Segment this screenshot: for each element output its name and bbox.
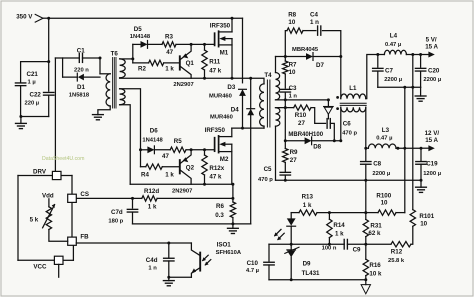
junction C19 tap [420, 147, 423, 150]
svg-text:MBR40H100: MBR40H100 [288, 132, 323, 138]
svg-text:C1: C1 [77, 47, 85, 54]
transistor Q1 collector [181, 67, 192, 79]
svg-text:R3: R3 [165, 34, 173, 41]
wire T6 primary bottom to ground [98, 106, 110, 115]
svg-text:D5: D5 [134, 26, 142, 33]
svg-text:2N2907: 2N2907 [173, 82, 193, 88]
wire C20 ground stem [420, 87, 422, 96]
junction Q2 emitter node [190, 148, 193, 151]
resistor R10 [294, 105, 311, 110]
wire gate row M2 [186, 149, 215, 151]
transistor Q1 emitter [181, 44, 192, 59]
capacitor C7d [132, 198, 134, 208]
junction M2 source row at col [231, 183, 234, 186]
wire R10 to C6 [311, 108, 326, 124]
controller box outline [18, 175, 52, 177]
svg-text:CS: CS [80, 191, 89, 198]
svg-text:FB: FB [80, 233, 89, 240]
junction C4d bottom [167, 276, 170, 279]
wire R12 row [366, 243, 391, 245]
svg-text:Q1: Q1 [186, 60, 195, 67]
wire 5V arrow lead [421, 54, 429, 56]
wire R13 row [291, 212, 299, 214]
wire D7 row [276, 56, 307, 58]
junction C8 bottom [364, 179, 367, 182]
svg-text:R16: R16 [369, 262, 381, 269]
svg-text:10: 10 [420, 220, 427, 227]
svg-text:470 p: 470 p [342, 131, 357, 137]
wire R8 snubber branch [285, 31, 287, 57]
wire sense column 5V [412, 55, 414, 210]
junction TL431 cathode [290, 243, 293, 246]
junction divider node [364, 243, 367, 246]
wire M1 drain column [231, 18, 233, 32]
ground primary power [228, 227, 239, 229]
wire C1 box top edge [55, 57, 79, 59]
svg-text:D9: D9 [303, 260, 311, 267]
transformer T4 secondary lower [276, 108, 280, 127]
transistor Q2 base bar [179, 160, 181, 173]
svg-text:C5: C5 [264, 166, 272, 173]
junction C3 bottom on tap row [284, 98, 287, 101]
mosfet M1 arrow [219, 36, 225, 41]
resistor R3 [162, 42, 176, 47]
inductor L3 [366, 147, 369, 149]
wire center tap row [276, 99, 329, 101]
svg-text:M2: M2 [220, 156, 229, 163]
svg-text:1 k: 1 k [303, 202, 312, 209]
freewheel diode 5V (open) [324, 106, 334, 108]
junction R16 bottom [364, 278, 367, 281]
wire M2 source column [231, 144, 233, 184]
svg-text:D8: D8 [313, 143, 321, 150]
svg-text:62 k: 62 k [368, 230, 381, 237]
svg-text:MUR460: MUR460 [209, 94, 232, 100]
wire gate row M1 [176, 43, 215, 45]
capacitor C7 [377, 55, 379, 68]
junction L3 out [396, 147, 399, 150]
junction TL431 anode [290, 278, 293, 281]
350V input chevron connector [35, 14, 43, 22]
svg-text:R4: R4 [141, 171, 149, 178]
junction R6 bottom [231, 222, 234, 225]
wire C21 bottom [20, 86, 22, 117]
junction R12x bottom node [203, 183, 206, 186]
svg-text:Vdd: Vdd [42, 192, 54, 199]
wire C21 branch top [21, 62, 49, 82]
capacitor C9 [343, 239, 345, 249]
svg-text:1N5818: 1N5818 [69, 93, 90, 99]
svg-text:ISO1: ISO1 [217, 242, 232, 249]
wire T6 upper secondary top lead [120, 58, 133, 60]
wire L1 bottom right to 12V row [365, 107, 367, 148]
wire common column [404, 87, 406, 212]
mosfet M1 channel bar [218, 31, 220, 46]
inductor L1 top winding [341, 94, 366, 99]
wire T4 lower secondary bottom lead [275, 126, 277, 180]
svg-text:350 V: 350 V [16, 13, 33, 20]
junction Q1 emitter node [190, 43, 193, 46]
svg-text:R2: R2 [138, 66, 146, 73]
wire T6 lower secondary top lead [120, 89, 141, 150]
svg-text:R10: R10 [295, 112, 307, 119]
mosfet M2 drain stub [219, 136, 232, 138]
svg-text:2200 µ: 2200 µ [423, 77, 441, 83]
wire D7 cathode to L1 [340, 57, 342, 99]
junction C21 branch [47, 60, 50, 63]
svg-text:M1: M1 [220, 50, 229, 57]
transformer T6 secondary upper winding [120, 59, 126, 78]
junction R10 row tap [284, 106, 287, 109]
wire secondary top lead [275, 57, 277, 73]
junction L3 in [364, 147, 367, 150]
wire source row to T4 [232, 78, 264, 84]
wire D5 row left [133, 43, 141, 45]
wire VCC stub [58, 264, 60, 277]
svg-text:IRF350: IRF350 [205, 127, 226, 134]
svg-text:1 k: 1 k [148, 204, 157, 211]
svg-text:R14: R14 [333, 222, 345, 229]
wire C1 box left edge [62, 58, 64, 77]
transistor Q2 emitter [181, 150, 192, 163]
wire R9 column mid [284, 108, 286, 149]
wire source to sense node [232, 184, 234, 198]
wire R2 to Q1 base [164, 62, 180, 64]
svg-text:D3: D3 [227, 84, 235, 91]
svg-text:C19: C19 [426, 161, 438, 168]
junction C7 tap [376, 53, 379, 56]
svg-text:27: 27 [298, 120, 305, 127]
junction R14 top [328, 211, 331, 214]
svg-text:1 k: 1 k [165, 171, 174, 178]
inductor L1 bottom winding [341, 107, 366, 112]
svg-text:C9: C9 [353, 246, 361, 253]
diode D7 [306, 53, 313, 60]
svg-text:100 n: 100 n [322, 246, 337, 252]
wire R100 right lead [396, 212, 405, 214]
diode D8 [305, 137, 312, 144]
mosfet M2 arrow [219, 142, 225, 147]
resistor R11 [204, 44, 206, 50]
svg-text:2N2907: 2N2907 [172, 188, 192, 194]
transformer T4 primary winding [260, 84, 264, 126]
svg-text:0.3: 0.3 [215, 212, 224, 219]
wire L1 bottom left to D8 [340, 107, 342, 141]
wire D3 column lower [242, 96, 244, 128]
svg-text:R31: R31 [370, 222, 382, 229]
svg-text:C4: C4 [310, 12, 318, 19]
wire R31 column top [365, 180, 367, 219]
ground 12V common [416, 186, 427, 188]
wire bottom rail [133, 223, 251, 225]
wire secondary common row [276, 179, 422, 181]
wire 12V row [396, 147, 421, 149]
mosfet M2 source stub [219, 151, 232, 153]
phase dot L1 bottom [336, 107, 339, 110]
svg-text:10: 10 [381, 200, 388, 207]
wire opto emitter row [169, 276, 192, 278]
capacitor C10 [268, 244, 270, 261]
wire CS row [76, 197, 142, 199]
LED light arrows [275, 229, 281, 235]
svg-text:DataSheet4U.com: DataSheet4U.com [42, 156, 84, 162]
wire D6 riser to R4 row [140, 150, 142, 167]
wire C19 ground stem [420, 180, 422, 187]
arrow 12V output [428, 145, 434, 151]
junction L4 out [411, 53, 414, 56]
wire secondary bottom row [269, 279, 366, 281]
resistor R12x [204, 150, 206, 155]
svg-text:15 A: 15 A [425, 44, 438, 51]
pin FB [68, 237, 77, 245]
wire M1 source row [120, 77, 232, 79]
junction D7 cathode node [339, 55, 342, 58]
shunt regulator D9 TL431 [290, 244, 292, 250]
svg-text:C6: C6 [343, 121, 351, 128]
mosfet M2 channel bar [218, 136, 220, 153]
junction 350V node [47, 17, 50, 20]
transformer T4 secondary upper [276, 73, 280, 100]
ground T6 primary [93, 114, 104, 116]
svg-text:R7: R7 [289, 62, 297, 69]
svg-text:5 V/: 5 V/ [426, 36, 437, 43]
junction snubber tap D7 anode [284, 55, 287, 58]
wire D8 row [285, 140, 304, 142]
wire D3 column upper [242, 18, 244, 83]
junction R14 bottom [328, 243, 331, 246]
junction D6 node [139, 148, 142, 151]
svg-text:MUR460: MUR460 [210, 114, 233, 120]
optocoupler ISO1 LED [290, 213, 292, 219]
junction sense col at common [411, 86, 414, 89]
resistor R2 [149, 60, 164, 65]
wire C1 box right edge [99, 58, 101, 74]
junction D8 cathode node [339, 139, 342, 142]
svg-text:4.7 µ: 4.7 µ [246, 268, 259, 274]
potentiometer 5k [48, 199, 50, 207]
svg-text:R101: R101 [419, 213, 434, 220]
svg-text:10 k: 10 k [369, 270, 382, 277]
capacitor C3 [284, 74, 286, 88]
wire R100 left lead [366, 212, 378, 214]
wire C21-C22 bottom tie [21, 116, 49, 118]
transformer T6 primary winding [106, 74, 110, 106]
wire M2 source row [130, 183, 233, 185]
svg-text:10: 10 [289, 69, 296, 76]
wire R13 to R14 to R31node [317, 212, 366, 214]
wire DRV column [54, 58, 56, 171]
transistor Q1 base bar [179, 56, 181, 69]
junction R12x top node [203, 148, 206, 151]
svg-text:D7: D7 [316, 62, 324, 69]
svg-text:R11: R11 [209, 59, 221, 66]
diode D4 [247, 109, 254, 116]
svg-text:C8: C8 [373, 161, 381, 168]
resistor R4 [146, 164, 163, 169]
svg-text:R13: R13 [302, 194, 314, 201]
capacitor C4 snubber [317, 26, 319, 35]
svg-text:5 k: 5 k [30, 217, 39, 224]
junction D8 anode node [284, 139, 287, 142]
junction R11 top node [203, 43, 206, 46]
junction C1 box top right [99, 57, 102, 60]
svg-text:47 k: 47 k [209, 174, 222, 181]
resistor R13 [299, 210, 317, 215]
resistor R31 [363, 219, 368, 236]
wire top 350V rail [49, 17, 243, 19]
mosfet M2 gate bar [214, 138, 216, 152]
diode D5 [141, 41, 148, 48]
svg-text:C7: C7 [385, 67, 393, 74]
transistor Q2 collector [181, 170, 192, 184]
mosfet M1 source stub [219, 44, 232, 46]
svg-text:R8: R8 [288, 12, 296, 19]
wire C4 to D7 cathode [323, 31, 341, 57]
svg-text:2200 µ: 2200 µ [384, 77, 402, 83]
svg-text:R6: R6 [216, 203, 224, 210]
svg-text:25.8 k: 25.8 k [388, 258, 405, 264]
svg-text:C21: C21 [27, 71, 39, 78]
wire M2 drain column [231, 128, 233, 137]
capacitor C6 [326, 119, 328, 129]
svg-text:47: 47 [166, 49, 173, 56]
svg-text:470 p: 470 p [258, 177, 273, 183]
diode D6 [147, 146, 154, 153]
svg-text:1200 µ: 1200 µ [423, 171, 441, 177]
svg-text:R12x: R12x [209, 165, 224, 172]
svg-text:MBR4045: MBR4045 [292, 47, 319, 53]
wire R4 row [141, 166, 146, 168]
junction M1 source row at col [231, 77, 234, 80]
junction sense node [231, 197, 234, 200]
capacitor C1 [78, 54, 80, 63]
wire FB row [76, 242, 191, 244]
svg-text:1 µ: 1 µ [28, 80, 36, 86]
pin VCC [54, 256, 63, 264]
svg-text:L3: L3 [382, 127, 390, 134]
svg-text:R5: R5 [174, 138, 182, 145]
junction C19 bottom ground [420, 179, 423, 182]
wire D5 to R3 [148, 43, 163, 45]
junction winding to drive network [131, 57, 134, 60]
wire D4 column lower [250, 115, 252, 224]
resistor R9 [283, 149, 288, 163]
svg-text:D1: D1 [77, 84, 85, 91]
svg-text:R100: R100 [376, 192, 391, 199]
junction ground tap [19, 115, 22, 118]
junction C6 bottom [333, 139, 336, 142]
capacitor C20 [420, 55, 422, 68]
common symbol below R16 [365, 280, 367, 285]
junction common col at 12V [403, 147, 406, 150]
svg-text:1 k: 1 k [165, 66, 174, 73]
capacitor C5 [284, 162, 286, 171]
resistor R5 [170, 147, 186, 152]
resistor R7 [284, 57, 286, 62]
svg-text:47: 47 [162, 153, 169, 160]
svg-text:27: 27 [290, 157, 297, 164]
transformer T4 core [266, 80, 268, 127]
svg-text:R9: R9 [290, 149, 298, 156]
wire C6 to D8 row [330, 123, 334, 140]
svg-text:1N4148: 1N4148 [130, 34, 151, 40]
wire ground stem R6 [232, 224, 234, 228]
svg-text:DRV: DRV [33, 168, 47, 175]
capacitor C22 [44, 91, 54, 93]
svg-text:T6: T6 [111, 51, 119, 58]
wire R4 to Q2 base [162, 166, 180, 168]
wire 5V common row [378, 86, 421, 88]
wire R8 to C4 [303, 30, 316, 32]
svg-text:10: 10 [288, 19, 295, 26]
svg-text:15 A: 15 A [425, 137, 438, 144]
junction freewheel tap [327, 98, 330, 101]
wire D4 column upper [250, 78, 252, 109]
wire R12d to sense [157, 197, 233, 199]
svg-text:IRF350: IRF350 [210, 22, 231, 29]
wire R2 row [133, 62, 149, 64]
svg-text:T4: T4 [264, 72, 272, 79]
svg-text:C4d: C4d [146, 257, 158, 264]
junction C4d tap [167, 242, 170, 245]
junction common col top [403, 86, 406, 89]
svg-text:R12: R12 [391, 249, 403, 256]
wire C22 bottom [48, 95, 50, 116]
ground 5V common [415, 95, 426, 97]
svg-text:TL431: TL431 [302, 270, 320, 277]
arrow 5V output [428, 52, 434, 58]
svg-text:220 µ: 220 µ [25, 101, 40, 107]
wire primary bottom row [232, 127, 264, 129]
svg-text:1N4148: 1N4148 [142, 137, 163, 143]
svg-text:D6: D6 [150, 127, 158, 134]
svg-text:1 n: 1 n [310, 19, 319, 26]
resistor R100 [378, 210, 396, 215]
wire ground stem [20, 117, 22, 124]
wire cathode row [269, 243, 344, 245]
ground C4d [163, 280, 174, 282]
optocoupler light arrows [203, 255, 208, 260]
mosfet M1 drain stub [219, 31, 232, 33]
junction R11 bottom node [203, 77, 206, 80]
capacitor C19 [420, 148, 422, 161]
transformer T6 core [112, 58, 114, 109]
junction D4 top node [249, 77, 252, 80]
svg-text:R12d: R12d [144, 188, 159, 195]
svg-text:0.47 µ: 0.47 µ [385, 42, 401, 48]
svg-text:1 k: 1 k [335, 231, 344, 238]
junction M1 drain on rail [231, 17, 234, 20]
mosfet M1 gate bar [214, 33, 216, 45]
wire D5 branch riser [132, 44, 134, 63]
svg-text:180 p: 180 p [108, 219, 123, 225]
svg-text:C7d: C7d [111, 209, 123, 216]
svg-text:L1: L1 [349, 85, 357, 92]
pin CS [68, 194, 77, 202]
junction C7d tap [131, 197, 134, 200]
resistor R101 [410, 210, 415, 227]
junction D3 at primary bottom [241, 127, 244, 130]
svg-text:L4: L4 [390, 32, 398, 39]
capacitor C8 [365, 148, 367, 161]
svg-text:Q2: Q2 [186, 164, 195, 171]
resistor R14 [328, 213, 330, 220]
inductor L4 [378, 54, 385, 56]
wire 350V bus down to C22 [48, 18, 50, 91]
wire R9 column upper [284, 100, 286, 108]
resistor R16 [365, 244, 367, 259]
junction C5 bottom [284, 179, 287, 182]
